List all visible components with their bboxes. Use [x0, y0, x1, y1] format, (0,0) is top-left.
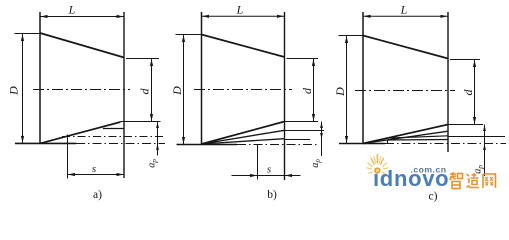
second pass fan line (b): [202, 130, 285, 144]
dimension line s outside arrows (b): [232, 175, 301, 177]
arrowhead ap top (b): [320, 122, 323, 128]
dimension line D (a): [22, 34, 24, 144]
arrowhead d top (a): [150, 59, 153, 66]
arrowhead L left (c): [364, 15, 371, 18]
cone top profile edge (c): [363, 36, 448, 59]
dimension line ap with tail (b): [321, 122, 323, 157]
watermark lamp circle dot of i: [375, 168, 380, 173]
label ap (a): [147, 159, 159, 168]
arrowhead d bottom (c): [473, 117, 476, 124]
watermark starburst rays: [376, 155, 378, 164]
svg-text:D: D: [333, 87, 347, 97]
third pass fan line (b): [202, 139, 285, 144]
blank bottom line solid part (a): [15, 142, 76, 144]
second pass extension (b): [285, 130, 325, 132]
step riser vertical (c): [387, 140, 389, 144]
svg-text:d: d: [461, 89, 475, 96]
blank bottom line dash-dot part (a): [76, 143, 165, 145]
s left extension line (b): [257, 144, 259, 179]
arrowhead ap top (a): [156, 122, 159, 128]
d top extension line (b): [287, 58, 319, 60]
arrowhead d bottom (a): [150, 114, 153, 121]
axis centerline dash-dot (a): [33, 89, 130, 91]
arrowhead D bottom (b): [182, 137, 185, 144]
step pass horizontal line (c): [388, 139, 449, 142]
svg-text:L: L: [400, 2, 408, 16]
d top extension line (a): [126, 58, 159, 60]
D top extension line (c): [339, 35, 364, 37]
s left extension line (a): [67, 135, 69, 179]
left edge with L extension (a): [39, 12, 41, 143]
left edge with L extension (c): [362, 12, 364, 144]
cone bottom profile line (b): [202, 122, 285, 145]
watermark text zhi CJK: [450, 172, 457, 180]
right edge with extensions (c): [447, 12, 449, 152]
svg-text:s: s: [267, 164, 271, 176]
third pass extension (c): [448, 136, 505, 138]
cone bottom profile line (a): [40, 122, 121, 143]
third pass dash-dot line (a): [62, 136, 165, 138]
arrowhead L right (b): [277, 15, 284, 18]
arrowhead L right (a): [117, 15, 124, 18]
right edge with extensions (b): [284, 12, 286, 180]
left edge with L extension (b): [201, 12, 203, 144]
svg-text:L: L: [236, 2, 244, 16]
arrowhead s right (a): [117, 173, 124, 176]
cone surface extension to ap (a): [121, 121, 161, 123]
svg-text:D: D: [7, 86, 21, 96]
svg-text:.com.cn: .com.cn: [411, 165, 447, 175]
cone top profile edge (b): [202, 35, 285, 58]
cone top profile edge (a): [40, 33, 124, 58]
dimension line d (c): [474, 60, 476, 125]
blank bottom line solid part (c): [339, 143, 385, 145]
dimension line L (a): [40, 16, 124, 18]
blank bottom line dash-dot part (b): [237, 144, 317, 146]
dimension line ap with tail (a): [157, 122, 159, 156]
axis centerline dash-dot (b): [194, 89, 292, 91]
arrowhead D top (a): [21, 34, 24, 41]
cone bottom profile line (c): [363, 125, 448, 144]
svg-text:d: d: [300, 87, 314, 94]
svg-text:a): a): [93, 189, 102, 201]
dimension line D (b): [183, 35, 185, 145]
svg-text:b): b): [267, 189, 277, 201]
dimension line s (a): [68, 174, 125, 176]
arrowhead L left (a): [41, 15, 48, 18]
dimension line d (b): [313, 59, 315, 122]
arrowhead s left (a): [68, 173, 75, 176]
second pass fan line (c): [363, 131, 448, 143]
svg-text:c): c): [429, 191, 438, 203]
arrowhead D bottom (c): [345, 136, 348, 143]
svg-text:s: s: [92, 163, 96, 175]
svg-text:L: L: [68, 3, 76, 17]
arrowhead ap bottom outside (a): [156, 144, 159, 150]
dimension line L (c): [363, 15, 448, 17]
svg-text:d: d: [138, 88, 152, 95]
label ap (b): [310, 159, 322, 168]
arrowhead ap bottom outside (c): [483, 144, 486, 150]
arrowhead s left (b): [250, 174, 257, 177]
blank bottom line solid part (b): [177, 144, 238, 146]
label ap (c): [473, 165, 485, 174]
axis centerline dash-dot (c): [355, 90, 455, 92]
dimension line L (b): [202, 15, 285, 17]
arrowhead D top (b): [182, 35, 185, 42]
svg-text:D: D: [170, 86, 184, 96]
arrowhead ap top (c): [483, 125, 486, 131]
arrowhead D bottom (a): [21, 136, 24, 143]
third pass fan line (c): [388, 136, 449, 138]
watermark text zao CJK: [471, 173, 479, 185]
dimension line ap with tail (c): [484, 125, 486, 177]
arrowhead D top (c): [345, 36, 348, 43]
blank bottom line dash-dot part (c): [385, 143, 506, 145]
D top extension line (a): [15, 33, 41, 35]
d top extension line (c): [450, 59, 480, 61]
arrowhead d top (c): [473, 60, 476, 67]
arrowhead s right (b): [285, 174, 292, 177]
arrowhead L left (b): [202, 15, 209, 18]
third pass extension (b): [285, 139, 311, 141]
second pass surface line (a): [103, 128, 124, 130]
dimension line d (a): [151, 59, 153, 122]
dimension line D (c): [346, 36, 348, 144]
D top extension line (b): [176, 34, 202, 36]
arrowhead d bottom (b): [312, 114, 315, 121]
right edge with extensions (a): [123, 12, 125, 178]
arrowhead L right (c): [441, 15, 448, 18]
arrowhead ap bottom (b): [320, 133, 323, 139]
watermark text wang CJK: [483, 174, 496, 188]
cone surface extension to ap (c): [448, 124, 483, 126]
arrowhead d top (b): [312, 59, 315, 66]
cone surface extension to ap (b): [285, 121, 319, 123]
